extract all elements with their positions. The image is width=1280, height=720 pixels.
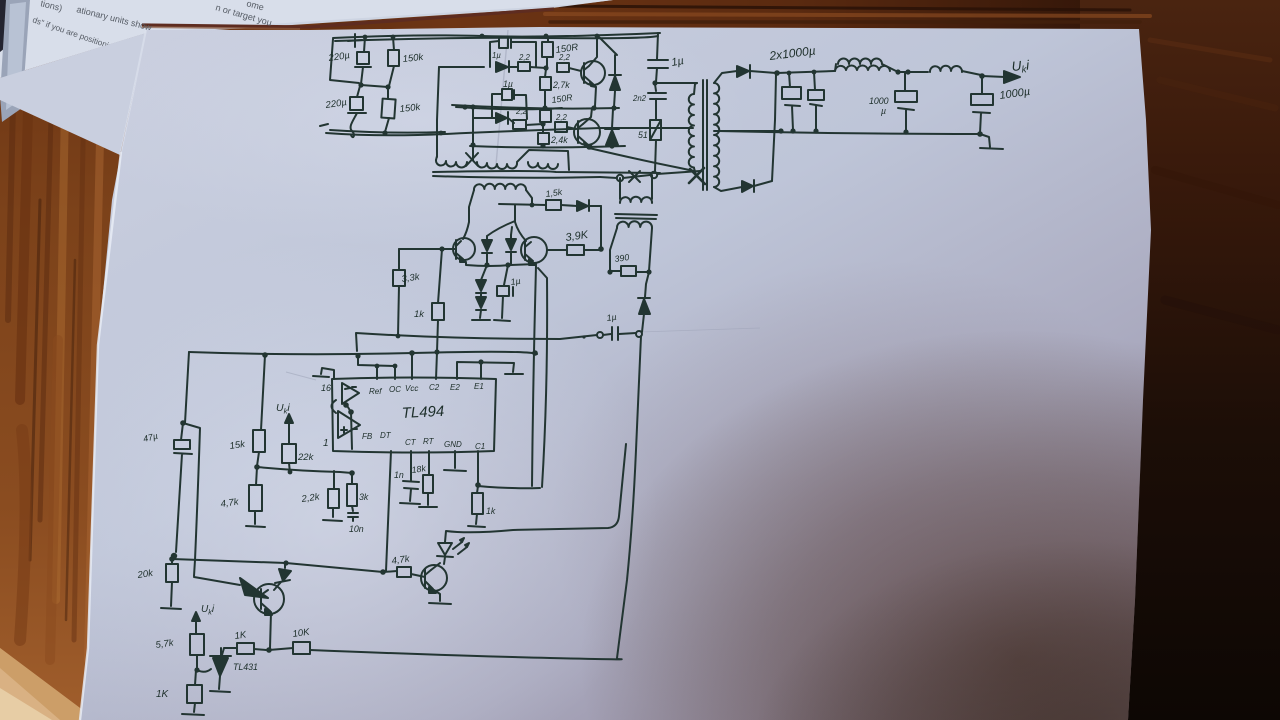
svg-text:GND: GND	[444, 440, 462, 449]
CT pin and 1n cap	[410, 451, 412, 481]
node output junction	[979, 73, 985, 79]
svg-text:1k: 1k	[414, 309, 425, 320]
wire Q4 emitter down	[270, 612, 271, 648]
resistor 1k bottom	[237, 643, 254, 654]
resistor 51 snubber	[650, 120, 661, 140]
capacitor Co4 1000u	[981, 77, 983, 94]
C1 pin wire	[477, 451, 479, 485]
wire top supply rail (double stroke)	[333, 33, 660, 38]
internal junction wires	[343, 402, 354, 415]
svg-text:CT: CT	[405, 438, 417, 447]
resistor 2,2 a	[518, 62, 530, 71]
wire left input drop	[330, 39, 359, 83]
svg-text:150k: 150k	[402, 52, 425, 65]
svg-text:2,2: 2,2	[558, 53, 571, 62]
node winding A junction	[530, 203, 535, 208]
wire Q1 collector to rail	[589, 38, 597, 66]
diode Do1	[737, 66, 749, 77]
resistor 150k lower	[387, 87, 389, 99]
svg-text:Uki: Uki	[276, 402, 290, 416]
capacitor Co2 1000u	[814, 72, 815, 90]
node divider junction	[254, 464, 260, 470]
node snubber junction	[652, 80, 657, 85]
E2 E1 pin stubs to ground	[457, 362, 523, 379]
node C1 junction	[475, 482, 481, 488]
wire LED feed	[445, 444, 626, 542]
GND pin ground	[444, 451, 466, 471]
resistor 2,2 d	[555, 122, 567, 132]
wire snubber to transformer top	[655, 82, 697, 84]
opto transistor Q4	[254, 584, 284, 614]
svg-text:390: 390	[614, 252, 630, 264]
wire T2 top lead	[515, 205, 526, 241]
svg-text:1µ: 1µ	[510, 276, 521, 287]
node Ref OC stubs	[355, 353, 397, 368]
wire C1 node right	[478, 486, 540, 488]
node upper base junction	[543, 65, 548, 70]
node output	[774, 70, 816, 76]
svg-text:1µ: 1µ	[492, 51, 501, 60]
svg-text:C2: C2	[429, 383, 440, 392]
pin labels top	[369, 382, 484, 396]
svg-text:51: 51	[638, 130, 648, 140]
node opto emitter junction	[266, 647, 272, 653]
wire primary-side lower rail	[320, 124, 328, 126]
resistor 10k	[293, 642, 310, 654]
wire Do2 riser	[772, 75, 776, 181]
svg-text:1n: 1n	[394, 470, 404, 480]
svg-text:18k: 18k	[411, 463, 427, 475]
resistor 3k FB	[347, 484, 357, 506]
resistor 20k	[166, 564, 178, 582]
resistor 3,9k	[567, 245, 584, 255]
printed instruction sheet under the drawing paper (top-left)	[0, 0, 613, 74]
printed sheet edge shadow line	[142, 9, 554, 27]
resistor 22k	[282, 444, 296, 463]
Uki arrow bottom	[195, 619, 197, 633]
resistor 1K low	[187, 685, 202, 703]
X mark on drive bus	[629, 171, 640, 182]
capacitor 2n2	[655, 84, 656, 91]
svg-text:Uki: Uki	[201, 604, 215, 617]
wire winding A right lead	[526, 190, 532, 205]
resistor 2,2 b	[557, 63, 569, 72]
wire ref bus to coupling cap	[356, 333, 597, 351]
wire cap midpoint junction	[361, 85, 388, 87]
svg-text:µ: µ	[881, 106, 886, 116]
transistor T2	[521, 237, 547, 263]
wire drive bus to main transformer	[600, 171, 700, 178]
wire lower emitter rail	[470, 146, 625, 148]
node FB junctions	[288, 470, 355, 476]
wire Q2 emitter	[589, 146, 591, 147]
resistor 2,2k	[328, 489, 339, 508]
wire base feed upper	[439, 66, 484, 68]
svg-text:2,7k: 2,7k	[552, 80, 570, 90]
wire Q3 emitter ground	[429, 590, 451, 604]
LED D5	[438, 543, 452, 555]
svg-text:1k: 1k	[486, 506, 496, 516]
wire Vcc bus left corner down	[185, 352, 189, 423]
wire winding C leads	[610, 228, 652, 271]
X mark on winding	[466, 153, 478, 166]
winding B feedback	[620, 175, 652, 199]
svg-text:RT: RT	[423, 437, 435, 446]
resistor 4,7k divider	[249, 485, 262, 511]
wire T1 base	[399, 248, 456, 250]
resistor 2,4k	[542, 124, 544, 133]
svg-text:2,2: 2,2	[555, 113, 568, 122]
diode Db	[510, 235, 512, 239]
wire diode down to 3,9k node	[600, 206, 602, 248]
node Vcc bus ends	[262, 350, 538, 358]
capacitor Co1 1000u	[789, 73, 790, 87]
node 3,9k right junction	[598, 246, 604, 252]
inductor L2	[930, 66, 962, 72]
node ref bus junctions	[396, 334, 586, 339]
wire diode tops	[487, 221, 515, 236]
wire vertical v2 from T2 emitter	[538, 268, 547, 487]
wood top plank grain	[150, 2, 1278, 330]
svg-text:1000: 1000	[869, 96, 889, 106]
capacitor 1u mid	[504, 265, 508, 285]
wire rail to transformer	[589, 148, 694, 171]
wire output arrow Uki	[982, 76, 1005, 77]
node Vcc bus junction	[409, 350, 415, 356]
svg-text:16: 16	[321, 383, 331, 393]
diode feedback	[645, 272, 649, 297]
winding A drive secondary	[474, 184, 526, 190]
wood right dark area	[1080, 0, 1280, 720]
Vcc pin stub	[411, 353, 413, 379]
resistor 15k	[261, 355, 265, 430]
wire output ground rail	[718, 131, 980, 134]
resistor 2,2 c	[513, 120, 526, 129]
opto coupling arrow	[194, 577, 240, 585]
wire left rail of upper base network	[437, 67, 439, 157]
faint paper creases	[286, 30, 760, 380]
plus polarity mark	[348, 34, 362, 47]
wire long feedback down right side	[617, 336, 641, 658]
wire T2 collector to 3,9k	[547, 249, 601, 251]
transformer core	[703, 80, 707, 190]
svg-text:2,2: 2,2	[518, 53, 531, 62]
resistor 5,7k	[190, 634, 204, 655]
svg-text:2,4k: 2,4k	[550, 135, 568, 145]
resistor 150k upper	[393, 37, 394, 50]
wire Q1 emitter down	[595, 87, 596, 106]
node low rail junctions	[169, 556, 288, 565]
svg-text:E1: E1	[474, 382, 484, 391]
diode Do2	[742, 181, 753, 192]
svg-text:FB: FB	[362, 432, 373, 441]
diode D2	[605, 128, 619, 130]
blank sheet corner lower-left under main paper	[0, 33, 146, 155]
pin 16 ground lead	[313, 368, 334, 379]
wire secondary centre tap	[714, 130, 782, 132]
top pin stubs Ref OC	[358, 356, 396, 379]
node DT low junction	[380, 569, 386, 575]
transistor Q2	[574, 119, 600, 145]
svg-text:3k: 3k	[359, 492, 369, 502]
node 47u junctions	[171, 420, 186, 559]
svg-text:Ref: Ref	[369, 387, 382, 396]
capacitor C2 220u	[357, 86, 360, 97]
wire Q3 collector	[431, 563, 440, 570]
resistor 1k on C1	[472, 493, 483, 514]
svg-text:Vcc: Vcc	[405, 384, 418, 393]
LED arrows	[453, 542, 467, 554]
resistor 150R lower	[540, 110, 551, 122]
wire lower base feed	[474, 117, 495, 119]
wire Vcc bus	[189, 352, 537, 355]
svg-text:22k: 22k	[297, 452, 315, 463]
svg-text:1: 1	[323, 438, 329, 449]
TL431 U2	[210, 655, 231, 657]
node E1 stub junction	[478, 359, 483, 364]
wire low rail	[172, 559, 383, 572]
capacitor 1u snubber top	[657, 33, 658, 59]
node T1 base junction	[439, 246, 444, 251]
svg-text:1µ: 1µ	[670, 55, 684, 69]
ground under diodes	[472, 319, 490, 321]
capacitor C1 220u	[364, 37, 365, 52]
svg-text:1µ: 1µ	[503, 79, 513, 89]
main transformer secondary winding	[714, 83, 719, 187]
wire vertical v1 from emitter rail	[532, 266, 536, 486]
wire divider to FB node	[257, 467, 352, 473]
svg-text:TL431: TL431	[233, 662, 258, 672]
wood bottom-left light corner	[0, 648, 96, 720]
capacitor 47u	[181, 423, 183, 440]
wire L1 to L2	[890, 68, 928, 72]
wire left rail vertical lower	[472, 107, 474, 146]
transistor T1	[453, 238, 475, 260]
resistor 1,5k	[546, 200, 561, 210]
svg-text:DT: DT	[380, 431, 392, 440]
node lower base junction	[540, 121, 545, 126]
svg-text:OC: OC	[389, 385, 401, 394]
paper left edge highlight	[80, 152, 121, 720]
wire long bottom	[310, 650, 622, 659]
svg-text:1K: 1K	[156, 689, 170, 700]
resistor 390	[621, 266, 636, 276]
Uki arrow mid	[288, 421, 290, 443]
ground under 1u	[494, 320, 510, 321]
diode Da	[486, 236, 488, 240]
wire winding A left lead	[463, 190, 474, 239]
printed gray text fragments on under-sheet	[31, 0, 273, 63]
transformer core lines	[433, 171, 660, 173]
capacitor 1u upper bypass	[490, 41, 499, 67]
C2 pin stub	[436, 352, 437, 379]
transistor Q3	[421, 565, 447, 591]
node dots on top rail	[363, 34, 600, 40]
wire secondary bottom lead	[714, 187, 742, 191]
IC U1 TL494 body	[332, 378, 496, 453]
opto diode	[284, 564, 286, 568]
node emitter rail junctions	[484, 262, 510, 267]
capacitor 1u coupling	[612, 327, 618, 340]
winding C feedback	[617, 221, 652, 228]
diode D3	[496, 62, 508, 72]
ground output	[980, 134, 1003, 149]
diode D1	[609, 74, 621, 76]
dark object at far top-left	[0, 0, 20, 52]
wire secondary top lead	[714, 71, 737, 83]
wire 47u right branch down	[183, 423, 200, 576]
diode Dd series	[476, 297, 486, 308]
op-amp A2 internal	[338, 411, 360, 438]
svg-text:1K: 1K	[234, 629, 248, 642]
wood top plank strip	[0, 0, 1280, 60]
RT pin and 18k	[428, 451, 430, 475]
svg-text:E2: E2	[450, 383, 460, 392]
op-amp A1 internal	[342, 383, 359, 404]
node 5,7k junction	[194, 667, 199, 672]
wire mid rail	[452, 105, 619, 109]
wood left area	[0, 0, 320, 720]
main transformer primary winding	[689, 94, 694, 168]
core lines feedback	[615, 214, 657, 219]
svg-text:C1: C1	[475, 442, 485, 451]
svg-text:1µ: 1µ	[606, 312, 617, 323]
wire drive node row	[499, 204, 546, 205]
capacitor Co3 1000u	[904, 72, 906, 91]
inductor L1	[835, 65, 890, 71]
diode D4	[496, 113, 507, 123]
pin labels bottom	[362, 431, 485, 451]
resistor 2,7k	[545, 69, 546, 77]
DT pin long wire	[386, 451, 391, 571]
X mark transformer joint	[689, 168, 705, 184]
wire output top	[777, 71, 834, 73]
resistor 1k drive	[432, 303, 444, 320]
resistor 150R upper	[547, 37, 549, 42]
resistor 3,3k	[393, 270, 405, 286]
node 390 junctions	[607, 269, 651, 274]
svg-text:150k: 150k	[399, 102, 422, 115]
node C2 bus junction	[434, 349, 439, 354]
capacitor 10n	[348, 513, 358, 521]
svg-text:2,2: 2,2	[515, 107, 528, 116]
svg-text:2n2: 2n2	[632, 94, 647, 103]
diode drive	[577, 201, 588, 211]
drive transformer primary winding	[436, 160, 467, 168]
transistor Q1	[581, 61, 605, 85]
wire emitter rail mid	[466, 263, 536, 266]
node L1 L2 junctions	[895, 69, 910, 74]
diode Dc series	[481, 265, 487, 280]
wire Q2 collector	[583, 108, 592, 124]
capacitor 1u lower	[502, 89, 512, 100]
svg-text:10n: 10n	[349, 524, 364, 534]
svg-text:TL494: TL494	[401, 403, 444, 422]
wood grain left streaks	[8, 40, 100, 660]
svg-text:15k: 15k	[229, 439, 247, 452]
resistor 4,7k opto	[397, 567, 411, 577]
